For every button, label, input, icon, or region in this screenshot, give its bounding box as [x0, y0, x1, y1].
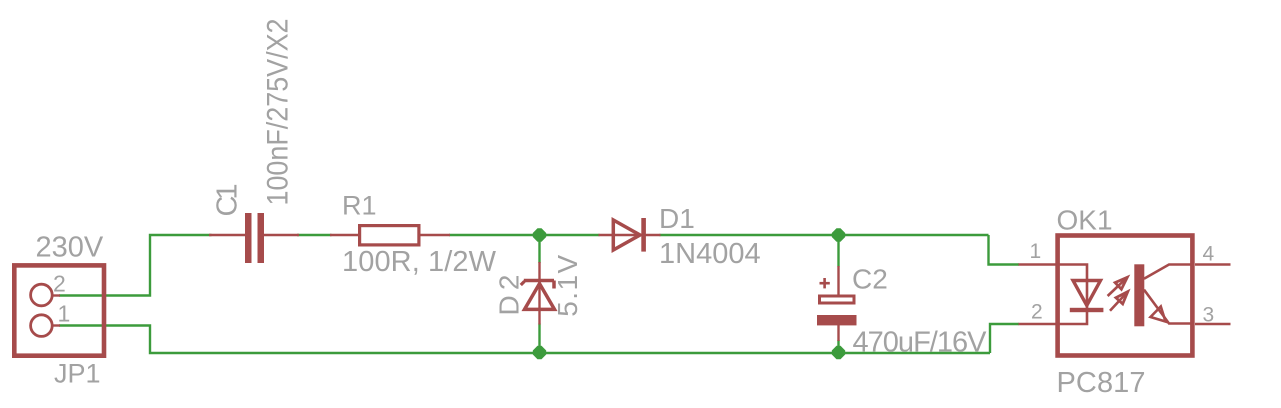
svg-text:C1: C1: [212, 184, 244, 217]
svg-text:3: 3: [1203, 304, 1215, 327]
svg-text:100nF/275V/X2: 100nF/275V/X2: [262, 19, 295, 206]
svg-text:2: 2: [1031, 301, 1043, 324]
svg-text:5.1V: 5.1V: [552, 254, 583, 316]
svg-text:1N4004: 1N4004: [659, 238, 761, 270]
svg-text:D1: D1: [659, 203, 695, 234]
svg-text:JP1: JP1: [54, 359, 101, 389]
svg-text:230V: 230V: [36, 232, 104, 264]
svg-text:1: 1: [1030, 240, 1042, 263]
svg-text:OK1: OK1: [1057, 205, 1113, 236]
svg-text:C2: C2: [852, 264, 888, 295]
svg-text:PC817: PC817: [1057, 367, 1146, 399]
svg-text:470uF/16V: 470uF/16V: [853, 327, 988, 359]
svg-text:100R, 1/2W: 100R, 1/2W: [342, 246, 497, 278]
svg-text:R1: R1: [342, 191, 377, 221]
svg-text:D2: D2: [494, 275, 525, 316]
svg-text:4: 4: [1203, 243, 1215, 266]
svg-text:1: 1: [58, 301, 71, 327]
svg-text:2: 2: [53, 271, 66, 297]
